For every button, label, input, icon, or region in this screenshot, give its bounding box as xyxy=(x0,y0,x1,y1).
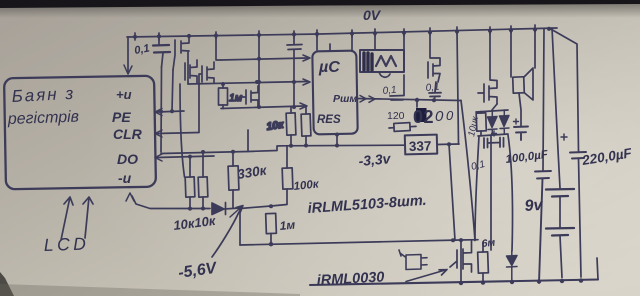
svg-text:Ршм: Ршм xyxy=(333,93,357,105)
svg-text:-u: -u xyxy=(118,170,132,186)
svg-text:регістрів: регістрів xyxy=(7,109,80,129)
wire Q6 drain to rail xyxy=(492,104,497,110)
regulator U3 337 box xyxy=(405,135,437,155)
arrow into uC line A xyxy=(303,55,310,61)
wire cluster rail top xyxy=(476,110,508,112)
wire R9 leads xyxy=(389,126,416,128)
node dots rail xyxy=(231,144,339,154)
resistor R10 10UK xyxy=(476,113,486,131)
display reading 0200 bold xyxy=(416,108,427,122)
resistor R11 6M xyxy=(478,252,489,273)
wire bus drop x457 long xyxy=(457,31,459,144)
wire 337 right lead xyxy=(437,143,459,146)
wire line C to uC pin xyxy=(221,106,304,109)
arrow short at node xyxy=(230,206,243,218)
transistor Q6 xyxy=(478,30,497,104)
wire column x180 to R1 xyxy=(180,84,185,177)
svg-text:-3,3v: -3,3v xyxy=(358,150,392,169)
wire line B to uC pin xyxy=(188,82,307,85)
svg-text:RES: RES xyxy=(317,114,341,126)
svg-text:02: 02 xyxy=(413,107,434,127)
shift-register box U2 xyxy=(4,76,156,190)
wire +U supply drop into register box xyxy=(127,37,129,72)
wire R4 leads xyxy=(305,107,307,146)
wire diode row to 1M and 100K xyxy=(240,205,287,209)
diode D2 xyxy=(500,110,510,134)
wire uC bottom stub xyxy=(336,135,338,147)
wire R7 leads xyxy=(286,146,288,204)
wire bus ticks xyxy=(135,25,535,40)
arrow into uC line B xyxy=(303,79,310,85)
resistor R8 1M xyxy=(266,213,277,233)
wire R11 leads xyxy=(482,242,484,283)
wire R1 top xyxy=(189,157,191,177)
bottom-left shadow corner xyxy=(0,272,14,296)
capacitor C6 100,0uF upper plates xyxy=(514,127,528,141)
wire v543 bus to cap100 xyxy=(543,29,544,171)
node dots on 0V bus xyxy=(133,27,551,39)
crystal Y1 xyxy=(360,50,404,72)
wire R6 leads xyxy=(232,152,234,208)
arrow into box bottom -U xyxy=(126,193,134,201)
arrow into CLR xyxy=(155,130,162,137)
wire R1 bottom xyxy=(189,197,191,209)
diode D4 xyxy=(212,203,240,215)
wire -3,3V rail xyxy=(161,145,405,153)
wire DO line xyxy=(157,156,214,158)
capacitor C8 220uF plates xyxy=(570,152,586,159)
svg-text:Баян з: Баян з xyxy=(11,84,76,106)
wire v3 from rail down xyxy=(490,135,492,250)
plus sign C6 xyxy=(514,119,519,124)
speaker LS1 xyxy=(513,77,525,93)
capacitor C2 at x294 xyxy=(287,34,302,107)
node dots diode row xyxy=(188,204,273,211)
wire v2 tail under cluster xyxy=(475,136,479,240)
svg-text:337: 337 xyxy=(409,138,432,154)
resistor R1 10K xyxy=(185,177,195,197)
wire stub x248 xyxy=(247,130,249,152)
wire line A to uC pin xyxy=(221,58,307,60)
arrow into box top xyxy=(124,65,132,74)
capacitor C7 100uF main plates xyxy=(535,171,551,283)
svg-text:120: 120 xyxy=(387,110,405,122)
wire bus drop x259 xyxy=(258,35,260,107)
wire R3 leads xyxy=(290,107,292,146)
wire C1 to PE column xyxy=(160,67,163,152)
wire long row y244 xyxy=(240,240,460,245)
diode D3 xyxy=(507,251,518,282)
svg-text:DO: DO xyxy=(117,151,138,167)
wire PE line xyxy=(157,111,184,112)
svg-text:1м: 1м xyxy=(279,218,296,233)
svg-text:1м: 1м xyxy=(229,92,242,104)
arrow PWM 2 xyxy=(369,96,375,102)
node dots lines ABC xyxy=(221,57,296,109)
svg-text:9v: 9v xyxy=(524,197,544,215)
svg-text:CLR: CLR xyxy=(113,126,143,142)
node dots PE/DO xyxy=(159,109,205,158)
resistor R5 1M horizontal cluster xyxy=(219,88,228,105)
arrow from label to Q7 xyxy=(406,270,447,282)
wire bus right upturn xyxy=(597,258,598,280)
wire R10 leads xyxy=(480,112,482,136)
transistor Q2 xyxy=(185,60,197,83)
svg-text:LCD: LCD xyxy=(43,233,89,255)
node dots PWM line xyxy=(415,98,436,102)
svg-text:0: 0 xyxy=(435,108,444,125)
svg-text:0,1: 0,1 xyxy=(382,85,397,97)
capacitor C3 0,1 xyxy=(403,33,405,95)
resistor R9 120 xyxy=(394,123,410,132)
svg-text:PE: PE xyxy=(112,109,131,125)
node dot uC bottom xyxy=(335,133,339,137)
wire battery bottom to bus xyxy=(560,236,562,278)
node dots row xyxy=(269,238,455,246)
arrow PWM 1 xyxy=(360,96,366,103)
arrow into PE xyxy=(155,109,162,116)
wire bus drop x216 to uC line xyxy=(216,36,221,60)
resistor R3 10k xyxy=(286,113,296,135)
dark photo edge band at top xyxy=(0,0,640,8)
wire uC top stub xyxy=(317,34,330,51)
wire C8 down to bus xyxy=(579,159,582,278)
diode D1 xyxy=(488,111,498,135)
wire R8 bottom xyxy=(270,234,272,244)
resistor R7 100K xyxy=(282,168,293,189)
wire cluster rail bottom xyxy=(478,134,508,136)
node dot row461 xyxy=(459,238,463,242)
transistor Q7 IRML0030 xyxy=(450,241,472,272)
svg-text:0V: 0V xyxy=(363,7,382,23)
transistor Q4 xyxy=(242,86,258,107)
LCD arrow 2 xyxy=(83,197,93,238)
wire row extension to R11 xyxy=(460,239,478,241)
op-amp U1 microcontroller box xyxy=(312,51,357,135)
arrow into uC line C xyxy=(300,103,307,109)
wire speaker feeds xyxy=(511,29,535,77)
wire 0200 stem xyxy=(416,100,418,107)
wire speaker bottom to cap xyxy=(519,93,521,126)
wire v4 from cluster to D3 xyxy=(508,135,513,251)
wire R5 leads xyxy=(222,84,224,109)
node dots bottom bus xyxy=(459,278,583,285)
LCD arrow 1 xyxy=(61,197,73,240)
capacitor C1 0,1 xyxy=(159,37,163,67)
wire stub x352 xyxy=(351,34,353,51)
wire node240 down to long row xyxy=(239,209,241,246)
resistor R2 10K xyxy=(198,177,208,197)
wire PWM line xyxy=(357,99,461,101)
wire vb node240row to bus xyxy=(460,240,462,283)
wire crystal top to bus xyxy=(374,33,376,50)
transistor Q3 xyxy=(199,62,214,132)
svg-text:+u: +u xyxy=(116,87,132,102)
wire diagonal to -5,6V label xyxy=(212,212,239,257)
transistor Q1 xyxy=(173,36,189,84)
wire -U line from box to diode row xyxy=(132,196,210,209)
capacitor C4 0,1 xyxy=(429,82,441,100)
svg-text:10к: 10к xyxy=(266,119,285,133)
capacitor C5 small pair xyxy=(484,138,504,149)
svg-text:0,1: 0,1 xyxy=(425,82,440,94)
resistor R4 10k xyxy=(301,114,311,136)
wire v1 from 337 out down xyxy=(449,144,455,240)
wire R2 top xyxy=(202,153,204,178)
wire 0V right drop xyxy=(549,28,579,151)
wire 0V top bus xyxy=(127,28,557,37)
wire bottom bus 0V return xyxy=(310,280,598,286)
wire battery feed from bus xyxy=(552,28,560,188)
wire crystal squiggle xyxy=(379,72,390,77)
arrow into DO xyxy=(155,154,162,161)
transistor Q5 xyxy=(428,32,440,82)
svg-text:0: 0 xyxy=(446,108,454,123)
svg-text:µС: µС xyxy=(318,59,340,76)
wire R2 bottom xyxy=(202,197,204,209)
wire PWM end bend down v2 xyxy=(461,101,475,241)
plus sign C8 xyxy=(561,134,567,140)
svg-text:6м: 6м xyxy=(481,237,496,250)
wire battery mid xyxy=(559,197,561,229)
node dot 337 out xyxy=(447,142,451,146)
wire CLR line xyxy=(157,133,199,134)
wire Q1 gate column to PE xyxy=(172,70,173,111)
battery BT1 9V xyxy=(546,189,574,236)
plus sign C5 xyxy=(492,131,497,136)
resistor R6 330K xyxy=(228,166,239,190)
capacitor C3 plates xyxy=(390,96,404,101)
package symbol IRML0030 xyxy=(399,250,427,270)
